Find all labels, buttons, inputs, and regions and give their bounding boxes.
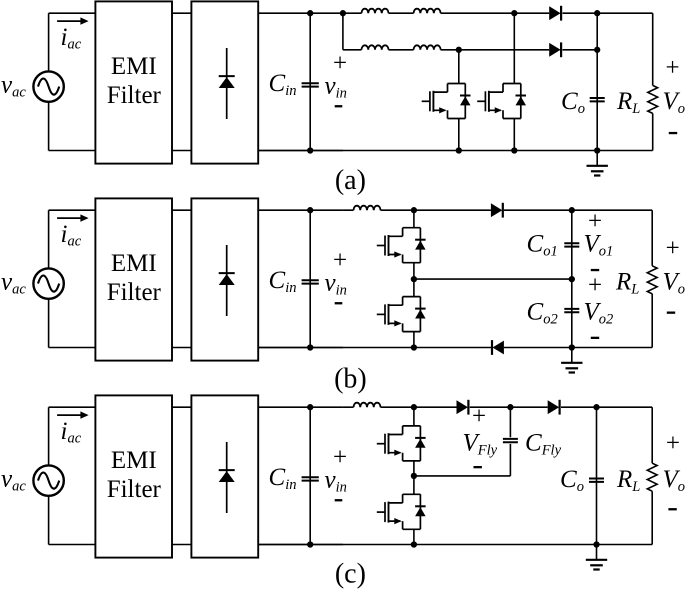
svg-text:Vo: Vo bbox=[663, 466, 685, 495]
svg-text:Vo: Vo bbox=[663, 88, 685, 117]
svg-text:CFly: CFly bbox=[525, 430, 562, 459]
svg-text:RL: RL bbox=[615, 269, 639, 298]
svg-text:Co: Co bbox=[561, 88, 585, 117]
svg-text:(a): (a) bbox=[335, 165, 366, 196]
svg-text:+: + bbox=[588, 208, 602, 235]
svg-text:+: + bbox=[472, 403, 486, 430]
svg-text:(b): (b) bbox=[334, 364, 367, 395]
svg-text:RL: RL bbox=[616, 88, 640, 117]
svg-text:Vo: Vo bbox=[663, 269, 685, 298]
svg-text:Co2: Co2 bbox=[527, 299, 558, 328]
svg-text:(c): (c) bbox=[335, 559, 366, 589]
svg-text:Vo2: Vo2 bbox=[584, 299, 614, 328]
svg-text:+: + bbox=[588, 272, 602, 299]
svg-text:+: + bbox=[666, 235, 680, 262]
svg-text:+: + bbox=[666, 55, 680, 82]
svg-text:Co: Co bbox=[560, 466, 584, 495]
svg-text:RL: RL bbox=[616, 466, 640, 495]
svg-text:VFly: VFly bbox=[463, 430, 498, 459]
svg-text:Co1: Co1 bbox=[527, 231, 558, 260]
svg-text:+: + bbox=[666, 430, 680, 457]
